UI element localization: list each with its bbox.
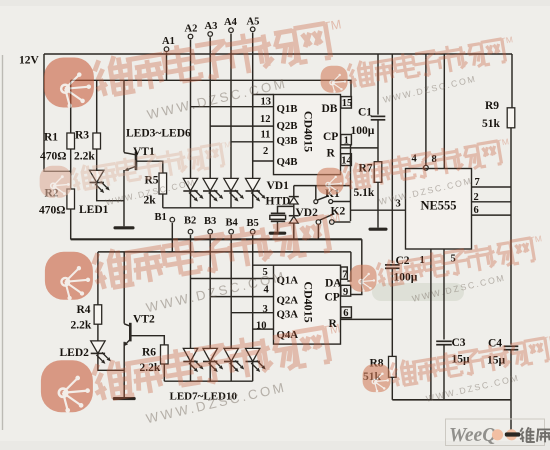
svg-text:R1: R1 bbox=[44, 132, 58, 144]
wire left 12V drop bbox=[44, 54, 71, 171]
label U1 CD4015 bbox=[302, 111, 316, 152]
terminal B1 label bbox=[155, 212, 167, 223]
wire mid rail bbox=[71, 239, 362, 294]
capacitor C3 bbox=[436, 341, 452, 344]
wire R1 column top bbox=[70, 80, 72, 133]
LED7 light arrows bbox=[189, 361, 204, 373]
label K2 bbox=[331, 206, 346, 218]
svg-text:B2: B2 bbox=[184, 216, 196, 227]
label C3 bbox=[452, 337, 466, 349]
svg-text:VT2: VT2 bbox=[133, 314, 155, 326]
label R9 bbox=[485, 100, 499, 112]
wire NE555 pin8 bbox=[443, 54, 445, 169]
svg-text:7: 7 bbox=[342, 269, 347, 280]
label C4 value 15µ bbox=[487, 355, 506, 367]
U2 pin 5 wire to B2 bbox=[191, 278, 274, 280]
terminal B2 bbox=[188, 229, 193, 234]
watermark WeeQoo weiku bbox=[446, 419, 550, 446]
svg-text:6: 6 bbox=[474, 205, 479, 216]
node 12V label bbox=[19, 55, 40, 67]
resistor R3 bbox=[93, 133, 101, 149]
pin label 15 bbox=[342, 98, 353, 109]
pin label 9 bbox=[343, 287, 348, 298]
svg-text:A1: A1 bbox=[162, 36, 175, 47]
LED10 light arrows bbox=[251, 361, 266, 373]
U2 pin 10 wire bbox=[253, 328, 274, 330]
label R3 bbox=[75, 130, 89, 142]
terminal A5 label bbox=[247, 16, 260, 27]
label C1 bbox=[358, 107, 372, 119]
pin label 3 bbox=[396, 199, 401, 210]
label R1 bbox=[44, 132, 58, 144]
resistor R6 bbox=[161, 345, 169, 364]
terminal B2 label bbox=[184, 216, 196, 227]
label R5 bbox=[145, 175, 159, 187]
label R6 value 2.2k bbox=[140, 362, 161, 374]
U1 pin 15 box bbox=[341, 97, 352, 109]
label C1 value 100µ bbox=[351, 125, 375, 137]
pin label 2 bbox=[263, 146, 268, 157]
resistor R5 bbox=[159, 173, 167, 194]
transistor VT1 bbox=[124, 152, 136, 171]
label U1 Q1B bbox=[277, 103, 298, 115]
diode VD1 bbox=[289, 197, 299, 204]
transistor VT2 bbox=[124, 323, 131, 346]
wire VD1 node to K1 bbox=[294, 185, 351, 187]
ground VT1 emitter bbox=[114, 226, 135, 229]
resistor R9 bbox=[507, 108, 515, 128]
label C3 value 15µ bbox=[452, 354, 471, 366]
wire LED10 cathode bbox=[252, 362, 254, 382]
svg-text:Q1B: Q1B bbox=[277, 103, 298, 115]
LED LED3 bbox=[183, 178, 197, 191]
svg-text:CP: CP bbox=[323, 131, 338, 143]
svg-text:B1: B1 bbox=[155, 212, 167, 223]
svg-text:DB: DB bbox=[322, 103, 338, 115]
pin label 5 bbox=[263, 267, 268, 278]
LED LED4 bbox=[203, 178, 217, 191]
pin label 11 bbox=[261, 129, 271, 140]
wire VT1 base bbox=[136, 161, 163, 173]
wire C1 column bbox=[377, 54, 379, 115]
U2 pin 7 DA path bbox=[347, 252, 351, 281]
terminal A1 bbox=[164, 47, 169, 52]
terminal B5 label bbox=[247, 218, 259, 229]
terminal A1 label bbox=[162, 36, 175, 47]
U2 pin 7 box bbox=[341, 267, 348, 279]
wire B1 stub bbox=[171, 223, 173, 252]
U2 pin 6 box bbox=[341, 307, 352, 318]
wire A4 column bbox=[230, 34, 232, 179]
pin label 5b bbox=[451, 254, 456, 265]
svg-text:51k: 51k bbox=[482, 118, 501, 130]
svg-text:Q3A: Q3A bbox=[277, 309, 299, 321]
svg-text:B4: B4 bbox=[226, 218, 239, 229]
resistor R4 bbox=[94, 305, 102, 324]
resistor R1 bbox=[67, 133, 75, 149]
LED LED7 bbox=[183, 348, 197, 361]
svg-text:NE555: NE555 bbox=[420, 199, 456, 213]
wire HTD to ground bbox=[277, 221, 279, 231]
label C2 value 100µ bbox=[394, 272, 418, 284]
svg-text:C1: C1 bbox=[358, 107, 372, 119]
svg-text:R9: R9 bbox=[485, 100, 499, 112]
svg-text:LED2: LED2 bbox=[60, 347, 90, 359]
terminal B5 bbox=[250, 229, 255, 234]
svg-text:100µ: 100µ bbox=[351, 125, 375, 137]
U1 pin 13 wire to A2 bbox=[191, 106, 274, 108]
svg-text:B5: B5 bbox=[247, 218, 259, 229]
wire R1-R2 junction bbox=[70, 149, 72, 189]
label U1 Q3B bbox=[277, 135, 298, 147]
label U2 Q2A bbox=[277, 294, 299, 306]
wire R7 to ground bbox=[377, 182, 379, 227]
wire NE555 pin4 bbox=[425, 54, 427, 165]
svg-text:3: 3 bbox=[263, 304, 268, 315]
svg-text:TM: TM bbox=[529, 233, 543, 245]
wire LED5 cathode bbox=[230, 191, 232, 208]
terminal A3 label bbox=[205, 21, 218, 32]
wire VT2 emitter to ground bbox=[123, 342, 125, 397]
label U1 R bbox=[327, 147, 336, 159]
label U1 Q4B bbox=[277, 156, 298, 168]
label U2 DA bbox=[325, 278, 342, 290]
svg-text:TM: TM bbox=[322, 17, 342, 34]
wire C3 bottom bbox=[443, 345, 445, 400]
label R7 value 5.1k bbox=[354, 187, 375, 199]
LED LED9 bbox=[224, 348, 238, 361]
watermark overlay weiku dzsc bbox=[70, 17, 550, 402]
wire R4 drop bbox=[97, 252, 99, 305]
diode VD2 bbox=[289, 216, 299, 223]
label R8 value 51k bbox=[363, 371, 382, 383]
wire VT1 emitter to ground bbox=[123, 170, 125, 226]
terminal B1 bbox=[170, 217, 175, 222]
wire R2 bottom bbox=[70, 209, 72, 240]
pin label 6 bbox=[343, 308, 348, 319]
wire B4 column bbox=[230, 235, 232, 348]
wire LED2 cathode down bbox=[98, 353, 124, 370]
pin label 8 bbox=[432, 154, 437, 165]
svg-text:R3: R3 bbox=[75, 130, 89, 142]
wire C2 column bbox=[391, 54, 393, 263]
svg-text:13: 13 bbox=[261, 97, 272, 108]
wire LED9 cathode bbox=[230, 362, 232, 382]
ground bottom right bbox=[505, 432, 521, 436]
label R3 value 2.2k bbox=[74, 151, 95, 163]
wire A1 column bbox=[166, 53, 168, 81]
terminal B4 label bbox=[226, 218, 239, 229]
wire LED3-LED6 cathode bus bbox=[163, 207, 253, 209]
switch K2 bbox=[316, 214, 350, 240]
label VD1 bbox=[267, 180, 290, 192]
IC U2 CD4015 body bbox=[274, 265, 341, 344]
wire R6 bottom bbox=[163, 364, 165, 381]
U1 left pin box stack bbox=[253, 95, 274, 162]
IC U1 CD4015 body bbox=[274, 95, 341, 175]
svg-text:5.1k: 5.1k bbox=[354, 187, 375, 199]
svg-text:10: 10 bbox=[256, 321, 267, 332]
svg-text:TM: TM bbox=[543, 333, 550, 345]
pin label 1 bbox=[344, 135, 349, 146]
LED1 light arrows bbox=[95, 182, 110, 194]
buzzer HTD bbox=[270, 213, 286, 221]
svg-text:15: 15 bbox=[342, 98, 353, 109]
label LED7~LED10 bbox=[170, 391, 238, 403]
terminal A2 label bbox=[185, 24, 198, 35]
wire LED3 cathode bbox=[190, 191, 192, 208]
LED LED2 bbox=[91, 341, 105, 354]
LED9 light arrows bbox=[230, 361, 245, 373]
wire B5 column bbox=[252, 235, 254, 348]
wire NE555 pin5 upper bbox=[443, 249, 445, 340]
wire NE555 pin2 bbox=[472, 201, 512, 203]
svg-text:WeeQ: WeeQ bbox=[449, 425, 496, 446]
svg-text:DA: DA bbox=[325, 278, 342, 290]
LED LED6 bbox=[246, 178, 260, 191]
label U2 CP bbox=[325, 292, 340, 304]
svg-text:CP: CP bbox=[325, 292, 340, 304]
wire DA line bbox=[98, 251, 351, 253]
label LED3~LED6 bbox=[126, 128, 191, 140]
wire R3 column top bbox=[96, 80, 98, 133]
label U3 NE555 bbox=[420, 199, 456, 213]
ground HTD bbox=[269, 232, 287, 235]
U1 pin 1 box bbox=[341, 135, 352, 145]
svg-text:9: 9 bbox=[343, 287, 348, 298]
label R2 value 470Ω bbox=[39, 205, 65, 217]
svg-text:A3: A3 bbox=[205, 21, 218, 32]
wire B2 column bbox=[190, 235, 192, 348]
label C2 bbox=[396, 255, 410, 267]
U1 pin 14 wire to C1/R7 bbox=[341, 147, 379, 149]
wire VT2 collector bbox=[123, 252, 125, 324]
svg-text:470Ω: 470Ω bbox=[39, 205, 65, 217]
wire NE555 pin1 bbox=[430, 249, 432, 400]
label HTD bbox=[266, 196, 291, 208]
pin label 1b bbox=[420, 255, 425, 266]
svg-text:TM: TM bbox=[496, 136, 510, 148]
label U1 Q2B bbox=[277, 120, 298, 132]
U1 pin 12 wire to A3 bbox=[210, 125, 273, 127]
svg-text:Q3B: Q3B bbox=[277, 135, 298, 147]
pin label 7 bbox=[342, 269, 347, 280]
svg-text:CD4015: CD4015 bbox=[302, 111, 316, 152]
svg-text:B3: B3 bbox=[204, 216, 216, 227]
pin label 4b bbox=[412, 154, 418, 165]
IC U3 NE555 body bbox=[406, 169, 472, 250]
wire LED7-LED10 cathode bus bbox=[164, 380, 252, 382]
resistor R8 bbox=[389, 356, 397, 377]
wire R8 bottom bbox=[391, 377, 393, 400]
wire bottom rail bbox=[392, 399, 511, 401]
wire NE555 pin3 wire bbox=[351, 209, 406, 211]
ground VT2 emitter bbox=[113, 397, 136, 400]
wire A3 column bbox=[209, 37, 211, 178]
terminal A5 bbox=[250, 27, 255, 32]
LED LED1 bbox=[90, 170, 104, 182]
U1 pin 11 wire to A4 bbox=[231, 141, 274, 143]
svg-text:LED3~LED6: LED3~LED6 bbox=[126, 128, 191, 140]
capacitor C4 bbox=[504, 346, 519, 349]
wire R5 bottom bbox=[162, 194, 164, 208]
wire right column mid bbox=[510, 128, 512, 345]
label U2 Q1A bbox=[277, 275, 299, 287]
label K1 bbox=[325, 188, 340, 200]
wire right column upper bbox=[511, 54, 513, 108]
label R8 bbox=[370, 358, 384, 370]
terminal B4 bbox=[229, 229, 234, 234]
svg-text:2.2k: 2.2k bbox=[74, 151, 95, 163]
svg-text:R4: R4 bbox=[77, 304, 91, 316]
label U2 Q4A bbox=[277, 329, 299, 341]
svg-text:C3: C3 bbox=[452, 337, 466, 349]
svg-text:7: 7 bbox=[475, 177, 480, 188]
wire VT1 collector bbox=[123, 80, 125, 152]
LED4 light arrows bbox=[209, 190, 224, 202]
wire VD column upper bbox=[293, 186, 295, 197]
wire VD1-VD2 link bbox=[293, 204, 295, 216]
wire CP/clock vertical bbox=[350, 145, 352, 221]
svg-text:11: 11 bbox=[261, 129, 271, 140]
resistor R7 bbox=[374, 162, 382, 183]
U2 left pin box stack bbox=[253, 264, 274, 266]
wire second rail (DB net) bbox=[71, 80, 351, 96]
switch K1 bbox=[314, 186, 351, 204]
wire LED8 cathode bbox=[209, 362, 211, 382]
label U2 R bbox=[329, 318, 338, 330]
terminal A2 bbox=[188, 34, 193, 39]
terminal A4 label bbox=[224, 17, 238, 28]
svg-text:2: 2 bbox=[263, 146, 268, 157]
svg-text:R: R bbox=[327, 147, 336, 159]
LED3 light arrows bbox=[189, 190, 204, 202]
label LED1 bbox=[79, 204, 109, 216]
label VD2 bbox=[296, 207, 319, 219]
LED LED10 bbox=[246, 348, 260, 361]
NE555 pin4 circle bbox=[424, 165, 429, 170]
ground R7 bbox=[369, 228, 388, 231]
wire A2 column bbox=[190, 40, 192, 179]
pin label 7b bbox=[475, 177, 480, 188]
pin label 14 bbox=[341, 156, 352, 167]
label U2 Q3A bbox=[277, 309, 299, 321]
wire R3 to LED1 bbox=[96, 149, 98, 170]
wire C2 to R8 bbox=[391, 268, 393, 356]
label R4 bbox=[77, 304, 91, 316]
pin label 10 bbox=[256, 321, 267, 332]
U2 pin 4 wire to B3 bbox=[210, 296, 273, 298]
svg-text:6: 6 bbox=[343, 308, 348, 319]
svg-text:A4: A4 bbox=[224, 17, 238, 28]
pin label 4 bbox=[264, 285, 270, 296]
resistor R2 bbox=[67, 189, 75, 209]
label C4 bbox=[488, 338, 502, 350]
svg-text:12: 12 bbox=[260, 114, 271, 125]
wire HTD tap bbox=[278, 206, 294, 213]
svg-text:470Ω: 470Ω bbox=[40, 151, 66, 163]
label R7 bbox=[359, 163, 373, 175]
LED5 light arrows bbox=[230, 190, 245, 202]
svg-text:CD4015: CD4015 bbox=[302, 281, 316, 322]
wire LED6 cathode bbox=[252, 191, 254, 208]
label U1 CP bbox=[323, 131, 338, 143]
U2 pin 3 wire to B4 bbox=[231, 312, 273, 314]
svg-text:LED1: LED1 bbox=[79, 204, 109, 216]
wire C1 to R pin junction bbox=[377, 120, 379, 162]
wire +12V top rail bbox=[44, 53, 512, 55]
svg-text:Q2B: Q2B bbox=[277, 120, 298, 132]
U2 pin 6 R wire bbox=[341, 318, 393, 320]
wire VT2 base bbox=[130, 336, 164, 345]
svg-text:TM: TM bbox=[321, 321, 341, 338]
svg-text:TM: TM bbox=[321, 210, 341, 227]
wire R4 to LED2 bbox=[97, 324, 99, 341]
LED2 light arrows bbox=[96, 352, 111, 364]
wire LED1 cathode down bbox=[97, 183, 124, 201]
label R9 value 51k bbox=[482, 118, 501, 130]
LED6 light arrows bbox=[251, 190, 266, 202]
svg-text:R6: R6 bbox=[142, 347, 156, 359]
svg-text:Q2A: Q2A bbox=[277, 294, 299, 306]
U1 pin 14 box bbox=[341, 154, 352, 166]
capacitor C2 bbox=[385, 265, 400, 268]
label U1 DB bbox=[322, 103, 338, 115]
wire B3 column bbox=[209, 235, 211, 348]
wire LED7 cathode bbox=[190, 362, 192, 382]
terminal A3 bbox=[208, 32, 213, 37]
LED LED8 bbox=[203, 348, 217, 361]
LED LED5 bbox=[224, 178, 238, 191]
label R5 value 2k bbox=[144, 194, 157, 206]
wire A5 column bbox=[252, 33, 254, 179]
svg-text:A5: A5 bbox=[247, 16, 260, 27]
pin label 12 bbox=[260, 114, 271, 125]
svg-text:12V: 12V bbox=[19, 55, 40, 67]
svg-text:Q4B: Q4B bbox=[277, 156, 298, 168]
wire right column lower bbox=[510, 350, 512, 433]
label LED2 bbox=[60, 347, 90, 359]
svg-text:2.2k: 2.2k bbox=[71, 320, 92, 332]
pin label 3b bbox=[263, 304, 268, 315]
pin label 6b bbox=[474, 205, 479, 216]
svg-text:2: 2 bbox=[474, 192, 479, 203]
svg-text:1: 1 bbox=[344, 135, 349, 146]
wire VD2 to rail bbox=[293, 223, 295, 239]
label R2 bbox=[45, 188, 59, 200]
terminal B3 bbox=[208, 229, 213, 234]
wire NE555 pin7 bbox=[472, 186, 512, 188]
terminal A4 bbox=[229, 28, 234, 33]
svg-text:VD1: VD1 bbox=[267, 180, 290, 192]
label VT1 bbox=[133, 146, 155, 158]
svg-text:HTD: HTD bbox=[266, 196, 291, 208]
pin label 2b bbox=[474, 192, 479, 203]
label VT2 bbox=[133, 314, 155, 326]
LED8 light arrows bbox=[209, 361, 224, 373]
U2 pin 9 box bbox=[341, 285, 351, 296]
label R1 value 470Ω bbox=[40, 151, 66, 163]
wire NE555 pin6 bbox=[472, 214, 512, 216]
label U2 CD4015 bbox=[302, 281, 316, 322]
capacitor C1 bbox=[371, 116, 386, 119]
svg-text:A2: A2 bbox=[185, 24, 198, 35]
wire LED4 cathode bbox=[209, 191, 211, 208]
label R6 bbox=[142, 347, 156, 359]
label R4 value 2.2k bbox=[71, 320, 92, 332]
pin label 13 bbox=[261, 97, 272, 108]
svg-text:TM: TM bbox=[500, 34, 514, 46]
